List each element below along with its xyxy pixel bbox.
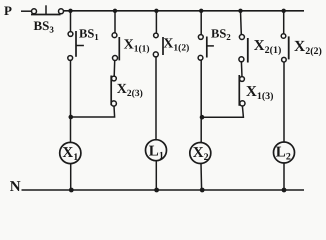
wire P rail: [64, 10, 304, 12]
svg-text:N: N: [10, 179, 21, 195]
wire branch5 mid: [240, 62, 243, 77]
lamp L2: [274, 142, 295, 163]
pushbutton BS1 (NO): [68, 31, 84, 60]
junction dot N-B6: [282, 188, 287, 193]
wire branch4 top: [200, 11, 202, 35]
relay coil X1: [60, 142, 81, 163]
contact X1(2) (NO, lamp L1): [153, 33, 163, 57]
junction dot P-B3: [154, 9, 158, 13]
wire branch5 top: [240, 11, 243, 35]
junction dot node A: [69, 115, 74, 120]
wire branch1 top: [70, 11, 72, 32]
junction dot P-B4: [199, 9, 203, 13]
contact X2(3) (NC, interlock): [111, 76, 116, 107]
wire P lead-in: [21, 10, 31, 12]
contact X1(3) (NC, interlock): [239, 75, 245, 106]
junction dot P-B6: [282, 9, 286, 13]
wire branch4 to coil: [200, 117, 202, 142]
pushbutton BS3 (NC, in P rail): [31, 5, 64, 14]
lamp L1: [146, 140, 167, 161]
wire branch1 mid: [70, 60, 72, 117]
wire branch2 top: [114, 11, 116, 33]
wire parallel join left: [71, 106, 115, 117]
junction dot P-B1: [68, 9, 72, 13]
junction dot P-B5: [238, 9, 242, 13]
wire branch6 bottom: [283, 163, 285, 190]
relay coil X2: [190, 143, 211, 164]
wire branch4 bottom: [200, 164, 203, 191]
wire branch6 mid: [283, 62, 285, 142]
contact X2(1) (NO, self-hold): [239, 35, 248, 63]
junction dot N-B3: [154, 188, 159, 193]
wire branch3 mid: [155, 57, 157, 140]
wire parallel join right: [202, 106, 243, 117]
contact X2(2) (NO, lamp L2): [281, 34, 289, 62]
junction dot N-B4: [200, 188, 205, 193]
junction dot N-B1: [69, 188, 74, 193]
wire branch6 top: [283, 11, 285, 34]
contact X1(1) (NO, self-hold): [112, 33, 119, 61]
junction dot node B: [200, 115, 205, 120]
svg-text:P: P: [4, 3, 12, 18]
wire branch1 bottom: [70, 164, 72, 190]
pushbutton BS2 (NO): [198, 35, 214, 61]
wire branch3 top: [155, 11, 157, 33]
wire branch1 to coil: [70, 117, 72, 142]
wire branch4 mid: [200, 60, 202, 117]
wire branch3 bottom: [155, 161, 157, 190]
junction dot P-B2: [113, 9, 117, 13]
wire N rail: [22, 189, 305, 191]
wire branch2 mid: [113, 61, 116, 77]
